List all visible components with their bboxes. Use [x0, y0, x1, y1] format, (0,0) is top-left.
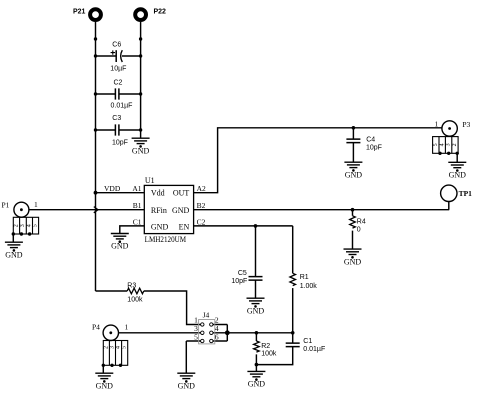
U1 pin number C1: [133, 217, 142, 226]
svg-text:B2: B2: [197, 201, 206, 210]
svg-text:LMH2120UM: LMH2120UM: [145, 235, 187, 244]
connector P1: [2, 200, 39, 236]
wire P21 rail vertical: [95, 22, 97, 291]
ground under J4 pin 5: [177, 373, 195, 390]
svg-text:1: 1: [34, 200, 38, 209]
svg-text:1: 1: [435, 119, 439, 128]
wire R2 branch: [255, 333, 257, 372]
op-amp U1 LMH2120UM body: [144, 176, 193, 244]
svg-text:P22: P22: [154, 9, 167, 16]
wire P4 shield stub: [102, 365, 104, 373]
svg-text:C3: C3: [112, 115, 121, 122]
junction dots on P22 rail: [139, 37, 142, 131]
svg-text:P4: P4: [92, 322, 100, 331]
svg-text:5: 5: [433, 143, 439, 146]
svg-text:100k: 100k: [261, 351, 277, 358]
svg-text:4: 4: [27, 224, 33, 227]
svg-text:VDD: VDD: [104, 184, 121, 193]
capacitor C6: [110, 42, 126, 73]
wire VDD net: [96, 192, 145, 194]
junction C4 node: [352, 126, 356, 130]
U1 pin number B1: [133, 201, 142, 210]
wire bottom net J4 to R2 to R1: [227, 332, 292, 334]
svg-text:5: 5: [122, 346, 128, 349]
U1 pin number B2: [197, 201, 206, 210]
svg-text:RFin: RFin: [151, 206, 167, 215]
svg-text:3: 3: [20, 224, 26, 227]
ground under P3: [448, 162, 466, 179]
capacitor C4: [346, 136, 382, 151]
svg-text:A1: A1: [132, 184, 141, 193]
wire C3 row: [96, 129, 141, 131]
svg-text:2: 2: [452, 143, 458, 146]
svg-text:10µF: 10µF: [110, 66, 126, 73]
svg-text:10pF: 10pF: [231, 278, 247, 285]
svg-text:Vdd: Vdd: [151, 189, 165, 198]
svg-text:R1: R1: [300, 274, 309, 281]
U1 pin number A2: [197, 184, 206, 193]
ground under P22 rail: [132, 138, 150, 155]
svg-text:P1: P1: [2, 200, 10, 209]
svg-text:B1: B1: [133, 201, 142, 210]
svg-text:1: 1: [125, 322, 129, 331]
J4 pin 3: [194, 324, 204, 334]
svg-text:GND: GND: [248, 380, 266, 389]
svg-text:0: 0: [357, 226, 361, 233]
J4 pin 5: [194, 332, 204, 342]
J4 pin 4: [210, 324, 219, 334]
U1 pin number C2: [197, 217, 206, 226]
wire P1 shield stub: [12, 234, 14, 242]
J4 pin 2: [210, 316, 219, 326]
junction C5 node: [254, 224, 258, 228]
wire J4 pins 2-4-6 tie: [213, 325, 227, 342]
wire C6 row: [96, 55, 141, 57]
svg-text:3: 3: [110, 346, 116, 349]
svg-text:0.01µF: 0.01µF: [111, 103, 133, 110]
ground under U1 pin C1: [111, 234, 129, 251]
svg-text:GND: GND: [345, 170, 363, 179]
svg-text:C1: C1: [303, 338, 312, 345]
svg-text:100k: 100k: [127, 296, 143, 303]
ground under R4: [344, 249, 362, 266]
ground under P1: [5, 242, 23, 259]
svg-text:4: 4: [439, 143, 445, 146]
J4 pin 6: [210, 332, 219, 342]
svg-text:2: 2: [14, 224, 20, 227]
wire R1 to bottom net: [292, 288, 294, 333]
arrowhead on B1 wire at rail: [94, 207, 98, 213]
svg-text:GND: GND: [178, 381, 196, 390]
wire A2 to P3: [194, 128, 442, 193]
U1 pin name RFin: [151, 206, 167, 215]
U1 pin name OUT: [173, 189, 190, 198]
svg-text:GND: GND: [111, 242, 129, 251]
svg-text:2: 2: [103, 346, 109, 349]
capacitor C3: [112, 115, 128, 146]
svg-text:EN: EN: [179, 222, 190, 231]
svg-text:A2: A2: [197, 184, 206, 193]
wire P3 ground stub: [456, 153, 458, 162]
connector P3: [433, 119, 471, 155]
svg-text:R2: R2: [261, 343, 270, 350]
U1 pin name EN: [179, 222, 190, 231]
junction dots on P21 rail: [94, 37, 98, 194]
resistor R2: [254, 341, 277, 358]
junction R1 bottom node: [291, 331, 295, 335]
wire C2 pin net: [194, 226, 293, 273]
svg-text:10pF: 10pF: [366, 145, 382, 152]
capacitor C2: [111, 79, 133, 109]
junction R4 node: [351, 208, 355, 212]
U1 pin name GND right: [172, 206, 190, 215]
node VDD label: [104, 184, 121, 193]
svg-text:J4: J4: [203, 311, 210, 320]
svg-text:1.00k: 1.00k: [300, 283, 318, 290]
wire P4 to J4 pin3: [119, 332, 201, 334]
svg-text:C5: C5: [238, 270, 247, 277]
svg-text:GND: GND: [172, 206, 190, 215]
wire C1 branch: [256, 333, 292, 365]
resistor R3: [127, 282, 144, 303]
jumper header J4: [199, 311, 215, 344]
svg-text:3: 3: [446, 143, 452, 146]
test point TP1: [441, 185, 473, 201]
svg-text:GND: GND: [5, 250, 23, 259]
svg-text:10pF: 10pF: [112, 139, 128, 146]
svg-text:GND: GND: [151, 222, 169, 231]
svg-text:6: 6: [215, 332, 219, 341]
svg-text:C6: C6: [112, 42, 121, 49]
svg-text:P3: P3: [462, 120, 470, 129]
svg-text:4: 4: [116, 346, 122, 349]
svg-text:U1: U1: [145, 176, 155, 185]
svg-text:R4: R4: [357, 219, 366, 226]
svg-text:0.01µF: 0.01µF: [303, 346, 325, 353]
junction R2 top node: [255, 331, 259, 335]
svg-text:GND: GND: [344, 257, 362, 266]
junction R2 C1 bottom node: [255, 363, 259, 367]
junction J4 tie node: [225, 330, 230, 335]
U1 pin name Vdd: [151, 189, 165, 198]
wire P1 to RFin B1: [29, 209, 144, 211]
connector P22: [135, 9, 166, 20]
connector P21: [73, 9, 101, 20]
ground under C5: [247, 298, 265, 315]
svg-text:5: 5: [33, 224, 39, 227]
svg-text:R3: R3: [127, 282, 136, 289]
connector P4: [92, 322, 129, 367]
svg-text:P21: P21: [73, 9, 86, 16]
svg-text:GND: GND: [96, 381, 114, 390]
resistor R1: [290, 273, 317, 290]
wire C4 branch: [352, 128, 354, 162]
wire C2 row: [96, 93, 141, 95]
capacitor C1: [286, 338, 326, 353]
wire R3 net from rail to J4 pin1: [96, 291, 201, 325]
svg-text:C1: C1: [133, 217, 142, 226]
ground under C4: [344, 162, 362, 179]
svg-text:GND: GND: [449, 171, 467, 180]
resistor R4: [350, 216, 366, 234]
wire R4 branch: [352, 210, 354, 249]
svg-text:5: 5: [194, 332, 198, 341]
wire C5 branch: [255, 226, 257, 298]
wire C1 pin to ground: [120, 226, 145, 234]
wire B2 to TP1: [194, 202, 450, 210]
wire J4 pin5 to ground: [186, 341, 200, 373]
svg-text:GND: GND: [247, 306, 265, 315]
svg-text:C2: C2: [114, 79, 123, 86]
svg-text:C4: C4: [366, 136, 375, 143]
svg-text:TP1: TP1: [459, 189, 473, 198]
svg-text:C2: C2: [197, 217, 206, 226]
svg-text:OUT: OUT: [173, 189, 190, 198]
U1 pin name GND left: [151, 222, 169, 231]
svg-text:GND: GND: [132, 146, 150, 155]
ground under P4: [95, 373, 113, 390]
U1 pin number A1: [132, 184, 141, 193]
capacitor C5: [231, 270, 262, 285]
ground under R2 C1: [247, 371, 265, 388]
wire P22 rail vertical: [140, 22, 142, 138]
J4 pin 1: [194, 316, 204, 326]
